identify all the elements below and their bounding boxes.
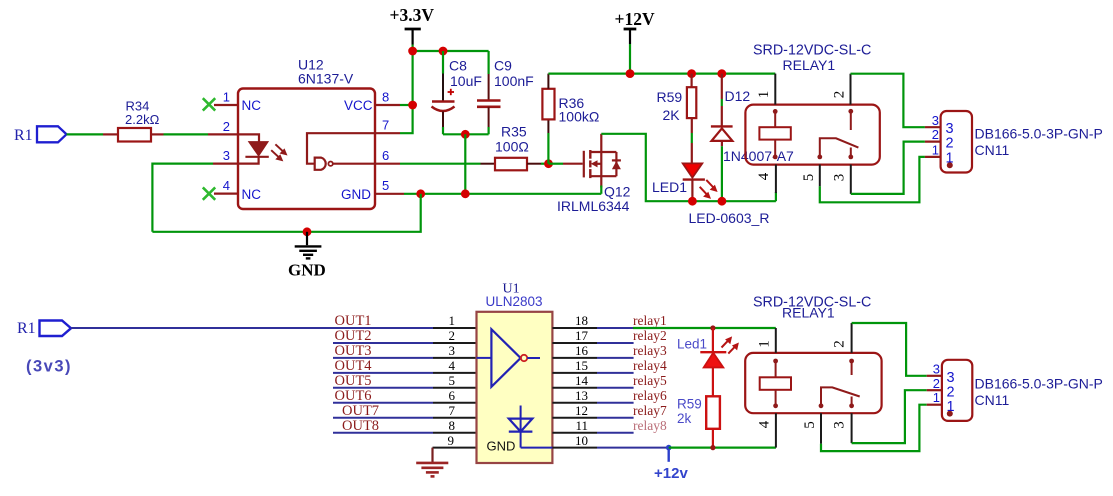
junction +12V stem [626,69,635,78]
designator U12 [298,57,324,73]
svg-text:11: 11 [575,418,588,433]
value 100 Ohm [495,139,529,155]
LED1 emission arrows [700,180,718,199]
relay(bottom) pin 4 line [775,413,777,447]
net label OUT7 [342,403,379,419]
U1 buffer symbol [477,329,541,387]
svg-text:IRLML6344: IRLML6344 [557,198,630,214]
relay pin 1 line [774,74,776,105]
wire relay1 to relay pin1 [633,327,776,329]
U12 pin 7 lead [375,132,400,134]
pin number 3 [223,148,230,163]
resistor R59 top lead [690,74,692,88]
Q12 source wire to gnd rail [600,186,602,194]
label R36 [559,95,585,111]
op-to-isolator U12 box [238,89,375,210]
svg-text:12: 12 [575,403,588,418]
U12 pin 6 lead [375,163,400,165]
svg-text:100kΩ: 100kΩ [559,109,600,125]
svg-text:Led1: Led1 [677,337,707,352]
resistor R59 body (bottom circuit) [706,396,720,429]
wire gate node to Q12 gate [549,163,564,165]
value 1N4007-A7 [723,148,794,164]
svg-text:5: 5 [801,174,817,182]
transistor Q12 (IRLML6344 n-mosfet) [584,150,621,188]
wire relay(bottom) pin5 to CN11 pin1 [821,405,927,451]
CN11 top outer pin number 2 [932,127,939,142]
relay(bottom) pin 4 number [757,420,773,428]
svg-text:3: 3 [223,148,230,163]
label CN11 (top) [975,142,1010,158]
junction gnd rail / pin3 loop [416,189,425,198]
connector CN11 (top) pin 3 lead [925,126,941,128]
value 2k (bottom) [677,411,692,426]
net label relay3 [633,343,667,358]
svg-text:3: 3 [933,361,940,376]
value 10uF [450,73,482,89]
svg-text:3: 3 [449,343,456,358]
svg-text:+12v: +12v [654,465,688,482]
U1 right pin lines 18..10 [552,328,597,448]
svg-text:OUT3: OUT3 [335,343,372,359]
Q12 drain lead [600,134,602,152]
diode D12 (1N4007) [711,126,733,201]
junction D12 top [717,69,726,78]
pin name NC (pin1) [242,98,262,113]
net stub OUT2 [333,342,433,344]
svg-text:14: 14 [575,373,589,388]
wire C8-C9 bottom rail [443,133,489,135]
net stub OUT4 [333,372,433,374]
pin number 6 [382,148,389,163]
connector CN11 (bottom) pin 2 lead [927,389,942,391]
svg-text:relay7: relay7 [633,403,667,418]
net stub OUT3 [333,357,433,359]
svg-text:10: 10 [575,433,588,448]
CN11 top inner pin name 1 [946,151,954,167]
net stub relay7 [597,417,634,419]
svg-text:relay8: relay8 [633,418,667,433]
resistor R1 left lead [103,133,118,135]
resistor R36 top lead [547,74,549,89]
CN11 bottom inner pin name 1 [947,399,955,415]
label SRD-12VDC-SL-C (bottom) [753,295,871,311]
internal gate of U12 [307,133,375,170]
relay(bottom) pin 1 number [757,340,773,348]
net label relay8 [633,418,667,433]
relay RELAY1 (bottom) box [745,353,881,413]
svg-text:1: 1 [946,151,954,167]
junction +3.3V stem [408,47,417,56]
svg-text:relay2: relay2 [633,328,667,343]
U1 pin name GND [487,439,516,454]
junction R59 top [687,69,696,78]
label D12 [725,88,751,104]
capacitor C9 [477,101,501,107]
U1 pin numbers 1-9 [448,313,456,448]
U12 pin 5 lead [375,193,404,195]
net label OUT8 [342,418,379,434]
relay pin 4 number [756,172,772,180]
relay switch contacts (top) [817,109,858,159]
CN11 bottom inner pin name 2 [947,384,955,400]
svg-text:2K: 2K [663,107,681,123]
svg-text:1: 1 [932,143,939,158]
resistor R59 bottom lead / wire to LED1 [691,118,693,163]
svg-text:16: 16 [575,343,589,358]
CN11 bottom outer pin number 2 [933,376,940,391]
junction C8 top [439,47,448,56]
ground symbol (top circuit) [295,232,322,259]
net label relay4 [633,358,667,373]
net stub relay8 [597,432,634,434]
resistor R35 right lead [527,163,541,165]
wire relay pin5 to CN11 pin1 [820,157,925,202]
wire pin6 to R35 [400,163,481,165]
resistor R59 bottom lead [712,429,714,448]
value ULN2803 [486,294,543,309]
relay coil (top) [759,109,790,159]
svg-text:LED-0603_R: LED-0603_R [689,210,770,226]
svg-text:1: 1 [947,399,955,415]
svg-text:100Ω: 100Ω [495,139,529,155]
pin name VCC [344,98,373,113]
resistor R59 body (top circuit) [687,87,696,118]
wire gate node up to R36 [547,133,549,164]
svg-text:OUT5: OUT5 [335,373,372,389]
label R59 [657,89,683,105]
U12 pin 1 lead [214,104,238,106]
value IRLML6344 [557,198,630,214]
label DB166-5.0-3P-GN-P (bottom) [975,376,1103,392]
svg-text:10uF: 10uF [450,73,482,89]
port R1 (bottom) label [17,320,36,337]
net label OUT5 [335,373,372,389]
net stub relay2 [597,342,634,344]
U1 pin 4 line [433,372,477,374]
svg-text:4: 4 [757,420,773,428]
resistor R35 left lead [481,163,496,165]
wire Led1 to R59 [712,368,714,397]
no-connect X on pin 4 [203,187,215,199]
svg-text:2: 2 [832,340,848,348]
label RELAY1 (bottom) [782,305,835,321]
svg-text:1: 1 [933,390,940,405]
port R1 (bottom) symbol [40,321,72,337]
svg-text:R35: R35 [501,124,527,140]
junction gate node [544,159,553,168]
wire relay(bottom) pin3 to CN11 pin2 [852,390,927,443]
svg-text:5: 5 [382,178,389,193]
wire caps bottom to gnd rail [464,134,466,194]
svg-text:2: 2 [946,136,954,152]
pin number 1 [223,90,230,105]
relay(bottom) pin 5 line [820,413,822,444]
relay pin 5 number [801,174,817,182]
capacitor C8 (polarized) [432,89,455,111]
capacitor C9 bottom lead [488,107,490,135]
relay pin 4 line [775,165,777,194]
U12 pin 8 lead [375,104,400,106]
capacitor C9 top lead [488,51,490,100]
resistor R35 body [495,158,527,171]
pin name NC (pin4) [242,187,262,202]
wire relay pin2 to CN11 pin3 [851,74,925,128]
label Led1 [677,337,707,352]
wire pin7 to vcc column [400,51,413,133]
pin number 4 [223,178,230,193]
connector CN11 (top) box [941,111,972,173]
svg-text:+3.3V: +3.3V [390,5,435,25]
label RELAY1 (top) [783,57,836,73]
relay pin 3 number [832,174,848,182]
net stub OUT6 [333,402,433,404]
U12 pin 2 lead [208,133,238,135]
label SRD-12VDC-SL-C (top) [753,43,871,59]
Q12 gate lead [563,163,583,165]
svg-text:relay4: relay4 [633,358,667,373]
wire pin18 blue to green (net relay1) [597,327,633,329]
svg-text:R1: R1 [17,320,36,337]
svg-text:RELAY1: RELAY1 [782,305,835,321]
svg-text:2.2kΩ: 2.2kΩ [125,112,160,127]
svg-text:2: 2 [832,91,848,99]
net label relay1 [633,313,667,328]
svg-text:18: 18 [575,313,588,328]
svg-text:CN11: CN11 [975,142,1010,158]
relay pin 1 number [756,91,772,99]
relay(bottom) pin 1 line [775,328,777,353]
connector CN11 (bottom) pin 3 lead [927,375,942,377]
wire +12V rail [548,72,775,74]
port R1 (top) label [14,127,33,144]
svg-text:4: 4 [756,172,772,180]
wire pin10 blue (+12v rail) [597,447,669,449]
U12 LED emission arrows [271,144,287,161]
diode Led1 (bottom circuit) [700,352,726,367]
port R1 (top) symbol [37,126,67,142]
U1 pin 3 line [433,357,477,359]
svg-text:2: 2 [933,376,940,391]
CN11 top inner pin name 2 [946,136,954,152]
svg-text:NC: NC [242,98,262,113]
junction caps bottom [461,130,470,139]
svg-text:OUT2: OUT2 [335,328,372,344]
label GND (top circuit) [288,261,326,280]
U1 pin 2 line [433,342,477,344]
connector CN11 (top) pin1 dot [947,162,953,168]
label R59 (bottom) [677,397,702,412]
svg-text:GND: GND [341,187,371,202]
svg-text:relay5: relay5 [633,373,667,388]
CN11 top outer pin number 1 [932,143,939,158]
svg-text:OUT8: OUT8 [342,418,379,434]
svg-text:5: 5 [449,373,456,388]
relay pin 3 line [850,165,852,194]
power +12V symbol [615,9,655,74]
net label relay5 [633,373,667,388]
wire relay pin3 to CN11 pin2 [851,142,925,194]
svg-text:+12V: +12V [615,9,655,29]
svg-text:relay6: relay6 [633,388,667,403]
svg-text:8: 8 [382,90,389,105]
svg-text:OUT1: OUT1 [335,313,372,329]
label R35 [501,124,527,140]
U1 pin 9 line [433,447,477,449]
wire R34 to U12 pin2 [164,133,209,135]
relay(bottom) pin 3 line [851,413,853,443]
net label relay2 [633,328,667,343]
svg-text:6: 6 [382,148,389,163]
label C8 [449,58,467,74]
label (3v3) [26,358,72,376]
value 100nF [494,73,534,89]
net stub relay6 [597,402,634,404]
value 2.2kOhm [125,112,160,127]
wire +3.3V rail [413,50,489,52]
net label relay7 [633,403,667,418]
svg-text:1N4007-A7: 1N4007-A7 [723,148,794,164]
CN11 bottom outer pin number 3 [933,361,940,376]
CN11 bottom inner pin name 3 [947,370,955,386]
junction gnd rail / caps [461,189,470,198]
svg-text:GND: GND [487,439,516,454]
junction Led1 top [710,325,715,330]
junction LED1 bottom [688,197,697,206]
svg-text:GND: GND [288,261,326,280]
net stub relay5 [597,387,634,389]
svg-text:7: 7 [382,118,389,133]
svg-text:VCC: VCC [344,98,373,113]
connector CN11 (bottom) pin 1 lead [927,404,942,406]
Q12 drain wire to bottom rail [601,134,776,201]
value LED-0603_R [689,210,770,226]
relay(bottom) pin 5 number [802,421,818,429]
svg-text:2k: 2k [677,411,692,426]
svg-text:3: 3 [832,174,848,182]
svg-text:6N137-V: 6N137-V [298,71,354,87]
wire R35 to gate node [541,163,549,165]
U1 pin 1 line [433,327,477,329]
U1 diode symbol [509,406,553,448]
net stub OUT7 [333,417,433,419]
label LED1 [652,179,687,195]
label C9 [494,58,512,74]
svg-text:4: 4 [449,358,456,373]
value 2K [663,107,681,123]
no-connect X on pin 1 [203,98,215,110]
svg-text:R59: R59 [677,397,702,412]
U1 pin 8 line [433,432,477,434]
svg-text:4: 4 [223,178,230,193]
relay pin 5 line [819,165,821,187]
wire pin8 to vcc node [400,104,413,106]
pin name GND [341,187,371,202]
relay coil (bottom) [760,359,791,409]
relay(bottom) pin 3 number [832,421,848,429]
wire port R1 to U1 OUT1 (net OUT1) [71,327,433,329]
relay switch contacts (bottom) [819,359,860,409]
resistor R34 body [118,128,151,142]
pin number 7 [382,118,389,133]
U12 pin 4 lead [214,193,238,195]
svg-text:(3v3): (3v3) [26,358,72,376]
svg-text:OUT4: OUT4 [335,358,373,374]
wire port R1 to R34 [67,133,104,135]
U1 pin 5 line [433,387,477,389]
svg-text:6: 6 [449,388,456,403]
label Q12 [604,184,631,200]
connector CN11 (bottom) box [942,360,972,421]
wire bottom rail up to relay pin4 [775,192,777,201]
relay pin 2 line [850,74,852,105]
relay RELAY1 (top) box [745,105,879,165]
U1 pin 6 line [433,402,477,404]
resistor R34 right lead [151,133,164,135]
resistor R36 bottom lead [547,119,549,133]
net stub relay3 [597,357,634,359]
svg-text:OUT7: OUT7 [342,403,379,419]
net label relay6 [633,388,667,403]
svg-text:1: 1 [449,313,456,328]
pin number 8 [382,90,389,105]
net stub relay4 [597,372,634,374]
CN11 top inner pin name 3 [946,121,954,137]
connector CN11 (top) pin 1 lead [925,156,941,158]
designator U1 [503,282,520,297]
junction pin8/vcc [408,101,417,110]
svg-text:1: 1 [757,340,773,348]
junction D12 bottom [718,197,727,206]
CN11 bottom outer pin number 1 [933,390,940,405]
pin number 2 [223,119,230,134]
diode D12 top lead [721,74,723,127]
svg-text:100nF: 100nF [494,73,534,89]
wire U12 pin3 to gnd loop [152,164,213,232]
net stub OUT5 [333,387,433,389]
svg-text:DB166-5.0-3P-GN-P: DB166-5.0-3P-GN-P [975,376,1103,392]
capacitor C8 top lead [442,51,444,101]
svg-text:C8: C8 [449,58,467,74]
label R34 [126,99,150,114]
power +3.3V symbol [390,5,435,51]
svg-text:15: 15 [575,358,588,373]
svg-text:2: 2 [223,119,230,134]
net label OUT2 [335,328,372,344]
wire relay(bottom) pin2 to CN11 pin3 [852,323,927,376]
svg-text:relay3: relay3 [633,343,667,358]
resistor R36 body [542,89,554,120]
pin number 5 [382,178,389,193]
diode Led1 anode lead [712,328,714,352]
svg-text:9: 9 [448,433,455,448]
net label OUT4 [335,358,373,374]
junction gnd symbol stem [303,227,312,236]
svg-text:R1: R1 [14,127,33,144]
svg-text:OUT6: OUT6 [335,388,372,404]
svg-text:2: 2 [449,328,456,343]
net label OUT3 [335,343,372,359]
CN11 top outer pin number 3 [932,113,939,128]
diode LED1 [683,163,705,201]
svg-text:NC: NC [242,187,262,202]
svg-text:C9: C9 [494,58,512,74]
connector CN11 (bottom) pin1 dot [947,411,953,417]
svg-text:8: 8 [449,418,456,433]
relay(bottom) pin 2 number [832,340,848,348]
relay pin 2 number [832,91,848,99]
internal LED of U12 [238,134,269,163]
